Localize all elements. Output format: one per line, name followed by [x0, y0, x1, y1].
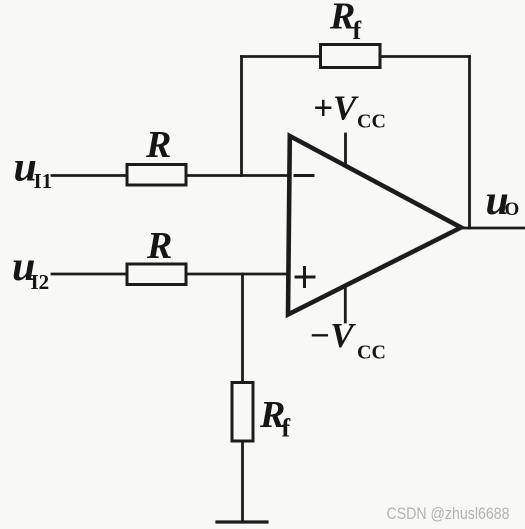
svg-text:I2: I2 — [31, 270, 50, 294]
-Vcc supply stub — [344, 288, 347, 322]
svg-text:f: f — [282, 414, 291, 443]
svg-text:O: O — [505, 199, 520, 220]
svg-text:+V: +V — [313, 89, 359, 128]
label +Vcc — [313, 89, 386, 133]
resistor Rf (feedback, top) — [321, 45, 381, 68]
wire input 2 from u_I2 to resistor R — [52, 273, 127, 276]
wire resistor R to op-amp inverting input — [186, 174, 288, 177]
op-amp inverting input minus sign — [295, 174, 313, 177]
wire Rf to ground — [241, 441, 244, 522]
wire output from op-amp apex to edge — [461, 227, 525, 230]
label u_I1 — [14, 145, 53, 194]
svg-text:f: f — [353, 16, 362, 45]
wire resistor R to op-amp non-inverting input — [186, 273, 288, 276]
svg-text:R: R — [329, 0, 355, 38]
op-amp non-inverting input plus sign — [296, 268, 314, 287]
resistor R (upper input) — [127, 165, 186, 186]
label u_O — [486, 178, 520, 224]
svg-text:CC: CC — [357, 342, 386, 364]
wire input 1 from u_I1 to resistor R — [52, 174, 127, 177]
wire feedback left vertical (node inverting input to top) — [240, 57, 243, 176]
wire feedback right vertical down to output node — [468, 57, 471, 229]
label Rf (feedback top) — [329, 0, 362, 45]
wire non-inverting node down to Rf — [241, 274, 244, 383]
svg-text:−V: −V — [309, 316, 356, 355]
label -Vcc — [309, 316, 386, 364]
svg-text:I1: I1 — [34, 169, 53, 193]
svg-text:R: R — [146, 225, 172, 267]
+Vcc supply stub — [344, 134, 347, 163]
svg-text:R: R — [145, 124, 171, 166]
op-amp U1 triangle — [288, 136, 461, 315]
resistor R (lower input) — [127, 264, 186, 285]
wire feedback top left segment — [242, 55, 321, 58]
svg-text:CSDN @zhusl6688: CSDN @zhusl6688 — [387, 504, 510, 523]
ground — [217, 520, 267, 523]
resistor Rf (grounding, bottom) — [232, 383, 253, 442]
svg-text:CC: CC — [357, 111, 386, 133]
label u_I2 — [12, 244, 49, 294]
label Rf (bottom) — [259, 394, 291, 443]
wire feedback top right segment — [380, 55, 470, 58]
